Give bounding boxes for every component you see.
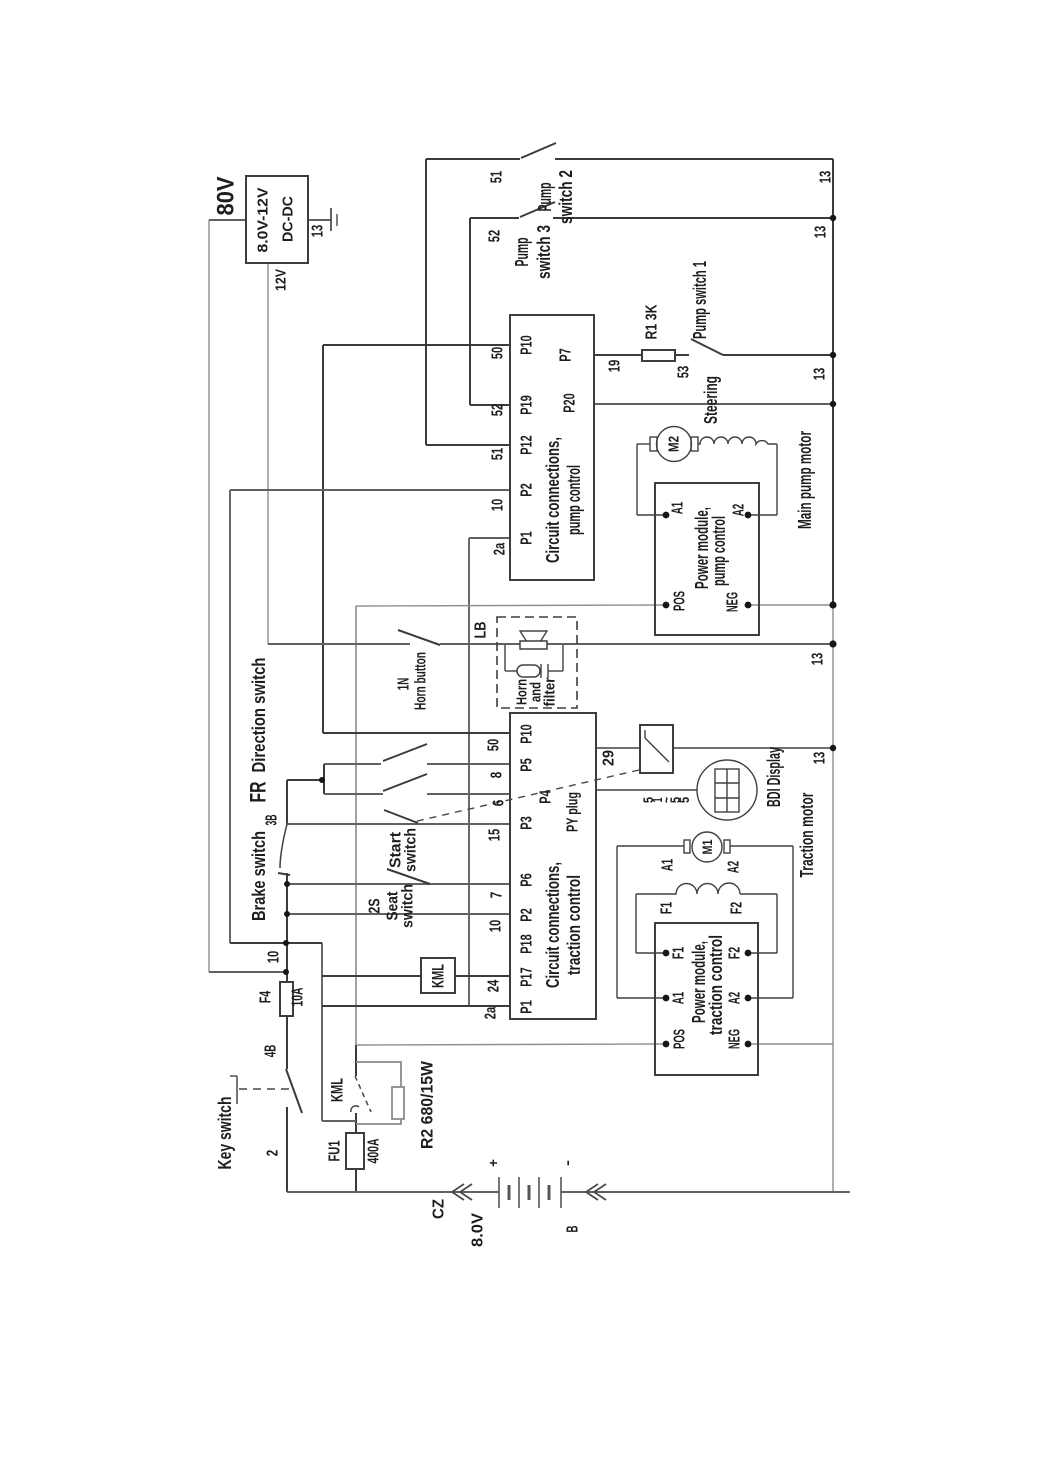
svg-text:A2: A2	[731, 504, 748, 517]
svg-text:51: 51	[490, 448, 507, 461]
svg-text:3B: 3B	[264, 815, 281, 826]
svg-text:8.0V: 8.0V	[470, 1213, 487, 1247]
svg-text:51: 51	[489, 171, 506, 184]
svg-text:F1: F1	[659, 902, 676, 915]
svg-text:13: 13	[818, 171, 835, 184]
svg-text:P17: P17	[519, 967, 536, 987]
svg-text:R1 3K: R1 3K	[644, 304, 661, 339]
svg-text:P2: P2	[519, 483, 536, 497]
svg-text:A2: A2	[727, 992, 744, 1005]
svg-text:13: 13	[812, 752, 829, 765]
svg-text:Circuit connections,: Circuit connections,	[543, 862, 563, 988]
svg-text:LB: LB	[473, 622, 490, 639]
svg-text:P6: P6	[519, 873, 536, 887]
svg-text:53: 53	[676, 366, 693, 379]
svg-text:F2: F2	[729, 902, 746, 915]
svg-text:5: 5	[676, 797, 692, 803]
svg-text:P10: P10	[519, 724, 536, 744]
svg-text:P1: P1	[519, 1000, 536, 1014]
svg-text:400A: 400A	[366, 1138, 383, 1163]
svg-text:50: 50	[486, 739, 503, 752]
svg-text:15: 15	[487, 829, 504, 842]
svg-text:13: 13	[310, 225, 327, 238]
svg-text:traction control: traction control	[564, 875, 584, 975]
svg-text:52: 52	[487, 230, 504, 243]
svg-text:P20: P20	[562, 393, 579, 413]
svg-text:P7: P7	[558, 348, 575, 362]
svg-text:CZ: CZ	[431, 1199, 448, 1219]
svg-text:Pump: Pump	[512, 238, 532, 267]
svg-text:2a: 2a	[483, 1007, 500, 1020]
svg-text:P5: P5	[519, 758, 536, 772]
svg-text:P19: P19	[519, 395, 536, 415]
svg-text:P10: P10	[519, 335, 536, 355]
svg-text:pump control: pump control	[564, 465, 584, 535]
svg-text:12V: 12V	[273, 269, 290, 291]
svg-text:Key switch: Key switch	[215, 1097, 235, 1170]
svg-text:P2: P2	[519, 908, 536, 922]
svg-text:8.0V-12V: 8.0V-12V	[255, 188, 272, 253]
svg-text:KML: KML	[328, 1078, 347, 1102]
svg-text:BDI Display: BDI Display	[764, 747, 784, 807]
svg-text:P18: P18	[519, 934, 536, 954]
svg-text:52: 52	[490, 404, 507, 417]
svg-text:Traction motor: Traction motor	[797, 793, 817, 878]
svg-text:8: 8	[489, 772, 506, 779]
svg-text:pump control: pump control	[709, 516, 729, 586]
svg-text:10: 10	[488, 920, 505, 933]
svg-text:-: -	[559, 1160, 575, 1166]
svg-text:2S: 2S	[367, 898, 384, 913]
svg-text:NEG: NEG	[725, 592, 742, 612]
svg-text:A1: A1	[671, 992, 688, 1005]
svg-text:Direction switch: Direction switch	[249, 658, 269, 773]
svg-text:P12: P12	[519, 435, 536, 455]
svg-text:P1: P1	[519, 531, 536, 545]
svg-text:50: 50	[490, 347, 507, 360]
svg-text:F1: F1	[671, 947, 688, 960]
svg-text:29: 29	[601, 750, 618, 766]
svg-text:B: B	[565, 1226, 582, 1233]
svg-text:1N: 1N	[396, 678, 413, 691]
svg-text:13: 13	[810, 653, 827, 666]
svg-text:POS: POS	[672, 1029, 689, 1049]
svg-text:switch 3: switch 3	[534, 225, 554, 279]
svg-text:M1: M1	[699, 839, 715, 854]
svg-text:A2: A2	[726, 861, 743, 874]
svg-text:13: 13	[812, 368, 829, 381]
svg-text:switch 2: switch 2	[556, 170, 576, 224]
svg-text:Pump switch 1: Pump switch 1	[690, 261, 710, 339]
svg-text:24: 24	[486, 980, 503, 993]
svg-text:F2: F2	[727, 947, 744, 960]
svg-text:7: 7	[489, 892, 506, 899]
svg-text:traction control: traction control	[706, 935, 726, 1035]
svg-text:P3: P3	[519, 816, 536, 830]
svg-text:Brake switch: Brake switch	[249, 831, 269, 921]
svg-text:NEG: NEG	[727, 1029, 744, 1049]
svg-text:M2: M2	[666, 436, 683, 452]
svg-text:KML: KML	[429, 964, 448, 988]
svg-text:Circuit connections,: Circuit connections,	[543, 437, 563, 563]
svg-text:P4: P4	[538, 790, 555, 804]
svg-text:DC-DC: DC-DC	[280, 196, 297, 242]
svg-text:4B: 4B	[263, 1045, 280, 1058]
svg-text:switch: switch	[400, 884, 417, 928]
svg-text:6: 6	[491, 800, 508, 807]
svg-text:80V: 80V	[213, 177, 240, 216]
svg-text:R2 680/15W: R2 680/15W	[418, 1060, 437, 1149]
svg-text:Horn button: Horn button	[413, 652, 430, 710]
svg-text:POS: POS	[672, 591, 689, 611]
svg-text:F4: F4	[258, 991, 275, 1004]
svg-text:+: +	[485, 1159, 501, 1167]
svg-text:10: 10	[266, 951, 283, 964]
svg-text:PY plug: PY plug	[565, 792, 582, 832]
svg-text:filter: filter	[542, 677, 559, 706]
svg-text:13: 13	[813, 226, 830, 239]
svg-text:19: 19	[607, 360, 624, 373]
svg-text:switch: switch	[403, 828, 420, 872]
svg-text:A1: A1	[670, 502, 687, 515]
svg-text:2: 2	[265, 1150, 282, 1157]
svg-text:Main pump motor: Main pump motor	[795, 431, 815, 529]
svg-text:10A: 10A	[290, 987, 307, 1006]
svg-text:10: 10	[490, 499, 507, 512]
svg-text:Pump: Pump	[535, 183, 555, 212]
svg-text:Steering: Steering	[701, 376, 721, 424]
svg-text:FR: FR	[246, 781, 271, 802]
svg-text:2a: 2a	[492, 543, 509, 556]
svg-text:FU1: FU1	[327, 1140, 344, 1161]
svg-text:A1: A1	[660, 859, 677, 872]
